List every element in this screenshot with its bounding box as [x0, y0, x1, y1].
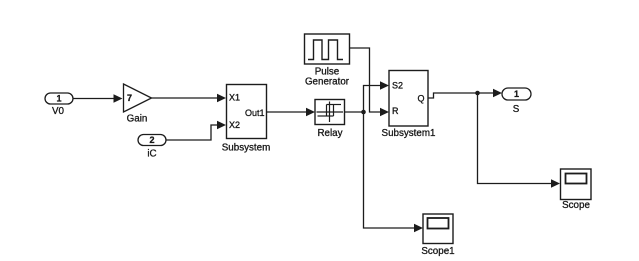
svg-text:Q: Q	[417, 94, 424, 104]
svg-text:Scope1: Scope1	[421, 246, 454, 257]
junction node on Relay wire	[361, 110, 366, 115]
svg-text:R: R	[392, 106, 399, 116]
svg-text:2: 2	[149, 135, 154, 145]
relay block Relay	[315, 100, 345, 140]
outport S	[502, 88, 531, 115]
svg-text:Relay: Relay	[317, 128, 342, 139]
scope block Scope	[561, 169, 592, 211]
subsystem block Subsystem	[222, 85, 270, 154]
inport iC	[138, 135, 166, 160]
wire Pulse Generator to Subsystem1 R	[350, 48, 390, 116]
wire V0 to Gain	[73, 94, 123, 102]
pulse generator block Pulse Generator	[305, 34, 350, 88]
svg-text:Gain: Gain	[127, 114, 148, 125]
gain block Gain	[124, 84, 152, 125]
svg-text:X2: X2	[229, 120, 240, 130]
inport V0	[45, 93, 73, 117]
svg-text:S: S	[513, 104, 520, 115]
subsystem block Subsystem1	[382, 71, 436, 140]
svg-text:Subsystem1: Subsystem1	[382, 128, 436, 139]
wire Subsystem1 Q to outport S	[428, 89, 502, 98]
svg-text:Scope: Scope	[562, 200, 590, 211]
svg-text:Generator: Generator	[305, 77, 350, 88]
wire Gain to Subsystem X1	[152, 94, 227, 102]
scope block Scope1	[421, 214, 454, 257]
junction node on Q wire	[475, 91, 480, 96]
svg-text:Subsystem: Subsystem	[222, 143, 270, 154]
svg-text:7: 7	[127, 93, 132, 103]
svg-text:iC: iC	[147, 149, 156, 160]
wire Relay junction to Scope1	[364, 112, 424, 232]
svg-text:V0: V0	[52, 106, 65, 117]
svg-text:1: 1	[514, 89, 519, 99]
wire iC to Subsystem X2	[166, 121, 226, 140]
svg-text:X1: X1	[229, 93, 240, 103]
svg-text:S2: S2	[392, 81, 403, 91]
wire Relay to Subsystem1 S2	[345, 81, 390, 112]
wire Subsystem Out1 to Relay	[267, 108, 316, 116]
svg-text:Out1: Out1	[245, 108, 265, 118]
wire Q junction to Scope	[478, 93, 561, 188]
svg-text:1: 1	[56, 94, 61, 104]
